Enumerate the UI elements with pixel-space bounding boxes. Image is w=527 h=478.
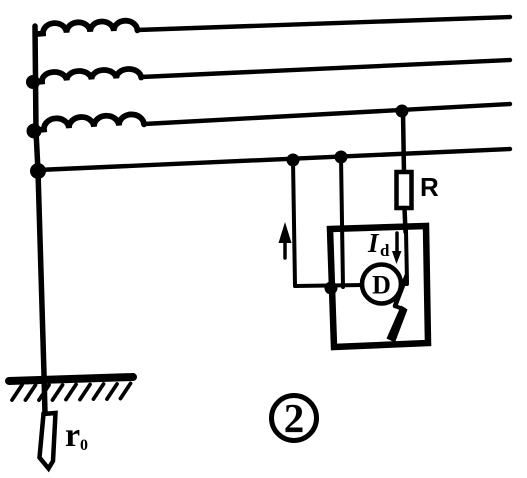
wire line 3 <box>144 104 510 124</box>
wire left vertical bus <box>35 26 45 414</box>
relay box <box>330 226 428 347</box>
node box-left-edge <box>325 282 338 295</box>
wire R inside box <box>406 231 407 282</box>
detector D <box>362 265 401 304</box>
wire connector to detector right <box>399 282 407 286</box>
node bus-line4 <box>30 163 46 179</box>
svg-text:r: r <box>65 417 80 454</box>
svg-text:2: 2 <box>284 395 305 441</box>
inductor coil phase 2 <box>37 69 141 82</box>
current direction up arrow <box>283 242 287 258</box>
current Id arrow <box>395 233 399 252</box>
wire drop A from line 4 <box>293 160 295 286</box>
svg-text:I: I <box>367 228 380 258</box>
wire line 4 <box>38 149 510 170</box>
node line3-R <box>396 105 409 118</box>
inductor coil phase 3 <box>38 114 144 130</box>
node line4-dropB <box>335 151 348 164</box>
resistor r0 (grounding) <box>40 413 56 469</box>
svg-text:d: d <box>380 241 390 260</box>
inductor coil phase 1 <box>37 21 137 34</box>
node line4-dropA <box>287 154 300 167</box>
wire R tap from line 3 <box>403 112 404 173</box>
wire line 2 <box>141 60 510 77</box>
wire drop B from line 4 <box>341 157 343 287</box>
fault lightning bolt <box>395 276 407 306</box>
svg-text:R: R <box>420 172 439 202</box>
resistor R <box>397 172 412 208</box>
svg-text:D: D <box>372 271 391 300</box>
wire horizontal to detector <box>295 285 364 286</box>
svg-text:0: 0 <box>80 437 88 454</box>
node bus-phase3 <box>27 124 42 139</box>
wire R to box <box>405 208 406 232</box>
node bus-phase2 <box>26 75 40 89</box>
figure number 2 <box>272 396 317 441</box>
ground <box>9 377 133 381</box>
wire line 1 <box>137 17 510 30</box>
